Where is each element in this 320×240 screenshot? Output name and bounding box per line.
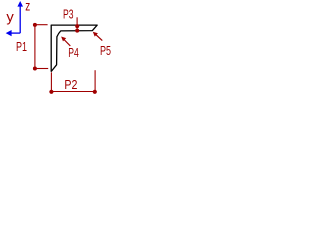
svg-text:y: y (6, 9, 14, 24)
arrow P5 (93, 32, 103, 41)
axis z arrow (17, 1, 23, 33)
angle section outline (51, 25, 97, 71)
svg-text:P1: P1 (16, 39, 27, 54)
dimension P2 (49, 70, 97, 94)
svg-text:z: z (25, 0, 30, 14)
dimension P3 (75, 17, 79, 32)
dimension P1 (33, 23, 48, 71)
svg-text:P3: P3 (63, 6, 74, 21)
svg-text:P2: P2 (64, 77, 77, 92)
background (0, 0, 132, 102)
svg-text:P4: P4 (68, 45, 79, 60)
arrow P4 (61, 37, 70, 46)
svg-text:P5: P5 (100, 43, 111, 58)
axis y arrow (6, 30, 21, 36)
